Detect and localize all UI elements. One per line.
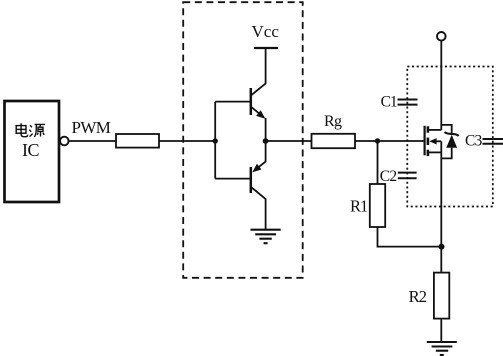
PWM output terminal	[60, 137, 69, 146]
resistor Rg	[312, 134, 356, 148]
wire Q2 collector to ground	[265, 199, 267, 230]
wire PWM to resistor	[69, 140, 116, 142]
resistor R2	[434, 273, 449, 319]
svg-text:IC: IC	[22, 140, 39, 160]
wire R1 to source junction	[378, 227, 442, 247]
wire base Q1	[215, 101, 250, 103]
dashed box (driver stage)	[183, 2, 303, 278]
Vcc rail bar	[254, 47, 278, 49]
wire Rg to gate	[355, 140, 425, 142]
svg-text:R1: R1	[350, 197, 368, 216]
capacitor C2 plates	[398, 173, 417, 179]
svg-text:R2: R2	[409, 287, 427, 306]
wire source vertical	[440, 152, 442, 272]
power IC box	[5, 101, 60, 202]
wire Vcc to Q1 collector	[265, 48, 267, 84]
ground (driver)	[251, 230, 281, 244]
wire drain vertical	[440, 41, 442, 130]
svg-text:C1: C1	[381, 94, 397, 111]
wire junction to R1	[377, 141, 379, 184]
svg-text:Vcc: Vcc	[252, 22, 280, 41]
wire Q1 emitter to output node	[265, 118, 267, 141]
node input junction	[213, 138, 218, 143]
resistor R1	[370, 184, 385, 227]
wire driver output to Rg	[266, 140, 312, 142]
supply terminal	[437, 32, 446, 41]
svg-text:Rg: Rg	[324, 113, 342, 130]
ground (R2)	[427, 342, 457, 355]
node source junction	[439, 244, 445, 250]
wire base Q2	[215, 178, 250, 180]
wire base bus vertical	[214, 102, 216, 179]
dotted box (MOSFET parasitic)	[407, 67, 493, 207]
wire R2 to ground	[440, 319, 442, 342]
svg-text:C3: C3	[465, 133, 483, 150]
capacitor C3 plates	[483, 139, 503, 144]
resistor (series, unlabeled)	[116, 134, 159, 148]
body diode of Q3	[441, 125, 458, 158]
MOSFET Q3	[425, 126, 442, 156]
label 电 (drawn glyph)	[16, 123, 28, 137]
transistor Q2 (PNP)	[251, 141, 266, 199]
label 源 (drawn glyph)	[29, 124, 45, 137]
transistor Q1 (NPN)	[251, 83, 266, 119]
node driver output	[263, 138, 269, 144]
node gate branch junction	[375, 138, 380, 143]
svg-text:C2: C2	[380, 168, 397, 185]
wire resistor to driver input	[159, 140, 215, 142]
capacitor C1 plates	[398, 100, 418, 105]
svg-text:PWM: PWM	[72, 118, 111, 137]
